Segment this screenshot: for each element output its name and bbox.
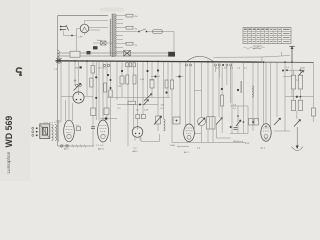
svg-text:AB C1: AB C1 [98, 148, 105, 151]
tiny value labels [75, 46, 306, 112]
component dark box [93, 46, 98, 49]
wire v110.5 [110, 62, 112, 142]
wire arrow to cluster [217, 137, 231, 139]
terminal stems [215, 66, 217, 72]
wire rectifier right taps [89, 26, 108, 28]
table top right [243, 28, 291, 44]
svg-text:1M: 1M [118, 86, 121, 88]
wire mid horizontal [107, 96, 120, 98]
arrow near tube3 [218, 62, 220, 117]
wire v117 [116, 62, 118, 100]
wire v222 [221, 67, 223, 96]
junction dot x283 [282, 70, 284, 72]
arrow on lower wire [144, 100, 149, 106]
pencil mark left margin [16, 68, 21, 75]
resistor + wire v122 [121, 62, 123, 76]
resistor slim x134 [133, 75, 136, 84]
IF transformer box [207, 62, 209, 117]
mid-band component details [54, 29, 292, 142]
junction dark dot [237, 89, 239, 91]
fuse F1 [153, 30, 163, 34]
wire: left frame vertical [57, 16, 59, 146]
speaker terminals [36, 127, 38, 129]
fuse X-box dark [124, 51, 131, 57]
LEFT-BOTTOM SECTION [32, 122, 94, 148]
terminal circles pair [186, 64, 188, 66]
junction dot [71, 35, 73, 37]
heater line upper [58, 52, 169, 54]
wire: top rail [58, 15, 109, 17]
resistor v152 [151, 62, 153, 83]
wire at speaker [57, 122, 59, 142]
svg-text:Sparschärfe: Sparschärfe [177, 145, 190, 148]
tube4 pins [263, 62, 265, 124]
arrow through resistor [298, 71, 304, 77]
eye tube circle [73, 92, 84, 103]
coil bumps x252 [252, 86, 253, 97]
coil v163.5 [163, 62, 165, 119]
wire v87 [86, 62, 88, 96]
wire tubeA pins [65, 100, 67, 121]
tube3 pins [185, 62, 187, 125]
switch blob dark [168, 52, 175, 57]
junction dark dot small [221, 88, 223, 90]
wire rectifier anode to transformer [85, 20, 109, 24]
svg-text:1000: 1000 [170, 145, 176, 147]
resistor R out2 [299, 70, 301, 75]
mid horizontal with pot [120, 96, 170, 98]
wire short right [283, 76, 292, 78]
wire tube4 to right [274, 130, 290, 132]
wire eye tube left [61, 96, 73, 98]
terminal circles row under bus [215, 64, 217, 66]
component right of tube A [77, 127, 81, 131]
svg-text:5000: 5000 [300, 68, 306, 70]
junction dots column x96 [95, 62, 97, 120]
antenna symbol right [289, 46, 294, 62]
wire v172 [171, 62, 173, 143]
wire v258 [257, 62, 259, 121]
dots x110.5 [110, 79, 112, 81]
fuse X-box small [93, 41, 112, 45]
wire above tubeB top [100, 118, 117, 120]
wire v180 + box left of tube3 [179, 62, 181, 117]
wire v61 [58, 62, 61, 122]
component box above tubeB right [104, 108, 109, 115]
resistor R out4 [298, 100, 302, 110]
wire above bus right [214, 56, 291, 58]
mains plug P [60, 25, 69, 31]
pot circle v201.5 [201, 62, 203, 118]
wire tubeB pins [98, 62, 100, 121]
plus mark x75 [74, 79, 76, 81]
extra junction dots [121, 70, 123, 72]
svg-text:Bandgew.: Bandgew. [253, 46, 263, 48]
resistor R heater3 [126, 42, 133, 45]
tube AK2 (A) [64, 120, 75, 142]
mains switch S1 [138, 31, 140, 33]
svg-text:AM 2: AM 2 [133, 150, 139, 153]
tube AF3 (3) [184, 124, 195, 142]
arrow right of tube4 [276, 62, 278, 117]
box x91 upper [91, 66, 95, 74]
BELOW BUS VERTICAL WIRES [58, 60, 315, 150]
link v194-v201 [195, 90, 202, 92]
wire rectifier cathode stub [84, 33, 86, 35]
resistor R heater2 [126, 26, 133, 29]
resistor R heater1 [126, 14, 133, 17]
wire v137.5 + box [137, 62, 139, 115]
TUBES [61, 83, 271, 154]
wire mains to junction [64, 31, 77, 36]
resistor on heater lines [70, 51, 80, 57]
resistor x110 [109, 90, 112, 97]
transformer T1 secondary winding [115, 14, 116, 56]
wire v75 [74, 62, 76, 86]
svg-text:LFF: LFF [79, 37, 84, 39]
speaker [40, 124, 50, 139]
resistor slim x104 [104, 83, 107, 92]
mid horizontal right [285, 96, 314, 98]
resistor slim x127 [126, 75, 129, 84]
wire v168 [167, 62, 169, 97]
wire lower horizontal [117, 104, 158, 106]
transformer T1 primary winding [110, 19, 111, 56]
secondary tap wires [116, 15, 126, 17]
small caps row [103, 64, 105, 66]
junction dot x108 [107, 74, 109, 76]
rectifier tube AZ1 [80, 24, 89, 33]
wire rectifier left [77, 29, 81, 53]
pickup arrow bottom right [296, 111, 298, 120]
arc over bus [187, 56, 213, 61]
wire v93 + capacitor [92, 62, 94, 127]
paper background [0, 0, 320, 181]
wire v158 + pot X [157, 61, 159, 63]
heater line lower [58, 55, 169, 57]
tube AL4 (4) [261, 124, 271, 142]
svg-text:110 0,1: 110 0,1 [98, 68, 107, 70]
wire eye tube right [84, 96, 93, 98]
svg-text:WD 569: WD 569 [4, 116, 14, 148]
MAIN SCHEMATIC [56, 14, 314, 147]
junction dark square [80, 66, 82, 68]
ground rail bottom [58, 145, 95, 147]
svg-text:AF 3: AF 3 [184, 151, 189, 154]
pencil smudge top [100, 8, 124, 12]
tube AM2 (round) [132, 127, 143, 138]
right edge vertical [313, 62, 315, 122]
tube ABC1 (B) [98, 120, 109, 142]
resistor x91 [90, 78, 93, 87]
cap box on lower wire [128, 101, 136, 104]
MAIN BUS [56, 61, 263, 62]
wire v147.5 [147, 61, 149, 63]
junction dots x155/x179 [151, 76, 160, 78]
wire v292 below bus [291, 61, 293, 63]
diode cluster [231, 62, 233, 134]
svg-text:1,2 0,4: 1,2 0,4 [96, 145, 104, 147]
terminal circles above eye tube [76, 84, 78, 86]
wire v285 [284, 61, 286, 63]
svg-text:7M: 7M [75, 68, 78, 70]
svg-text:Wellensch.: Wellensch. [233, 141, 244, 143]
coil bumps at left edge [58, 50, 60, 57]
wire tube3 to pot [194, 133, 201, 135]
component dark blob [87, 51, 91, 54]
wire from fuse down to switch blob [163, 32, 175, 52]
output transformer windings [52, 125, 54, 141]
svg-text:1,4F: 1,4F [56, 121, 61, 123]
table cell marks [244, 29, 290, 42]
wire v133.5 [133, 62, 135, 128]
transformer T1 core [111, 14, 113, 58]
svg-text:AL 4: AL 4 [261, 147, 266, 150]
component box above tubeB left [91, 108, 96, 116]
wire v82 to eye tube [78, 62, 80, 92]
resistor on v172 [170, 80, 173, 89]
resistor slim x166 [165, 80, 168, 88]
long bottom wire [172, 142, 246, 144]
junction dot on lower wire [139, 104, 141, 106]
resistor R out3 [291, 100, 295, 110]
svg-text:2,1 1,5: 2,1 1,5 [62, 145, 70, 147]
wire v143 + box [142, 62, 144, 115]
handwriting below table [244, 47, 265, 49]
star symbol left [57, 57, 62, 64]
boxes left of tube4 [252, 62, 254, 119]
vertical label marks [241, 81, 242, 93]
resistor slim [221, 95, 224, 106]
resistor R out1 [293, 70, 295, 75]
svg-text:Lumophon: Lumophon [6, 151, 11, 173]
pot arrow above eye tube [74, 83, 82, 90]
svg-text:AK 2: AK 2 [64, 148, 70, 151]
wire horizontal y70 right [285, 69, 305, 71]
wire tube2 bottom link [141, 134, 160, 142]
wire v128 [127, 62, 129, 146]
